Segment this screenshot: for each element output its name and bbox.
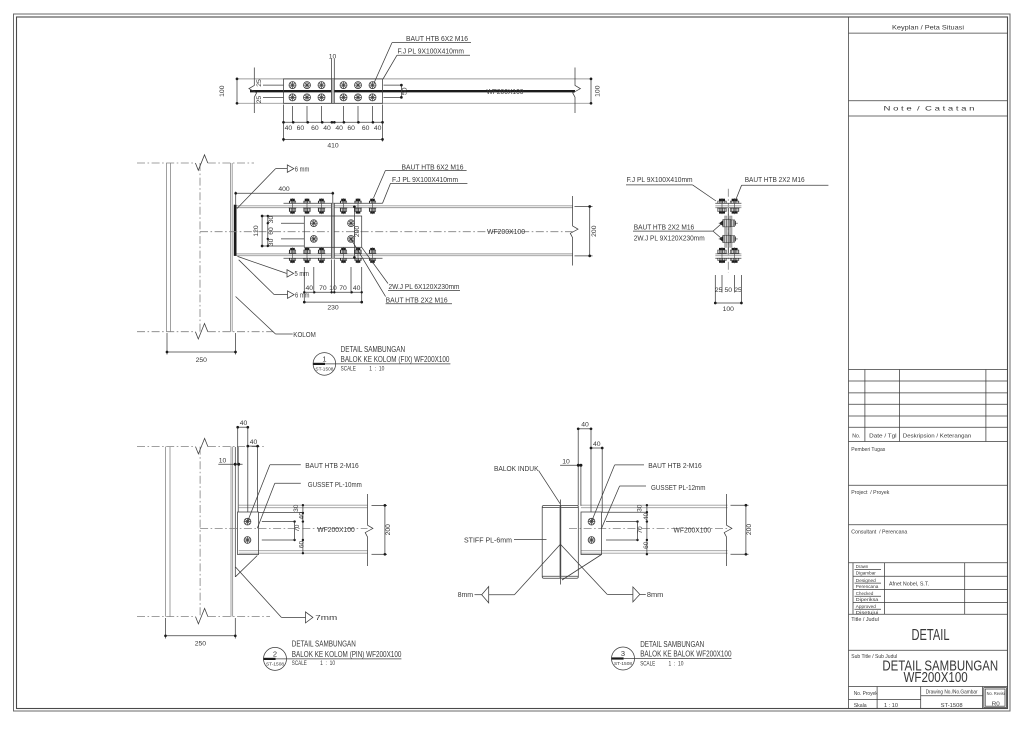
svg-text:GUSSET PL-12mm: GUSSET PL-12mm bbox=[651, 483, 706, 492]
svg-text:40: 40 bbox=[299, 512, 306, 520]
svg-text:200: 200 bbox=[354, 226, 361, 238]
svg-text:Date / Tgl: Date / Tgl bbox=[869, 434, 897, 440]
flange bolts bottom det1 bbox=[289, 247, 377, 263]
beam web thick center line plan bbox=[250, 90, 575, 92]
svg-text:250: 250 bbox=[196, 357, 208, 364]
column bottom match line with break det2 bbox=[137, 608, 270, 624]
dimension 30 60 30 web bolt rows bbox=[267, 215, 305, 247]
bolt group plan top row bbox=[289, 82, 376, 89]
svg-text:6 mm: 6 mm bbox=[295, 290, 310, 299]
svg-text:R0: R0 bbox=[992, 702, 1000, 708]
svg-text:40: 40 bbox=[593, 441, 601, 448]
project section bbox=[849, 490, 1008, 525]
revision table bbox=[849, 370, 1008, 442]
svg-text:30: 30 bbox=[637, 504, 644, 512]
beam WF200X100 plan outline bbox=[237, 78, 591, 80]
svg-text:F.J PL 9X100X410mm: F.J PL 9X100X410mm bbox=[398, 47, 465, 56]
note header bbox=[849, 101, 1008, 116]
svg-text:WF200X100: WF200X100 bbox=[487, 227, 525, 236]
section web bolts bbox=[719, 220, 738, 243]
svg-text:Title / Judul: Title / Judul bbox=[851, 617, 879, 623]
svg-text:60: 60 bbox=[299, 541, 306, 549]
dimension 50 right of plate bbox=[384, 84, 409, 99]
top dims det3: 40 40 10 bbox=[560, 422, 603, 512]
section top bolts bbox=[717, 198, 740, 214]
svg-text:ST-1508: ST-1508 bbox=[266, 661, 284, 666]
svg-text:WF200X100: WF200X100 bbox=[674, 528, 712, 535]
svg-text:Keyplan / Peta Situasi: Keyplan / Peta Situasi bbox=[892, 24, 965, 31]
svg-text:SCALE: SCALE bbox=[341, 365, 356, 372]
column centerline dashdot bbox=[199, 163, 201, 332]
bottom flange splice plate line bbox=[284, 257, 383, 259]
svg-text:BAUT HTB 2-M16: BAUT HTB 2-M16 bbox=[648, 461, 702, 470]
dimension 200 det2 bbox=[372, 504, 392, 556]
dimension 200 beam end det1 bbox=[575, 205, 599, 257]
dimension 120 web plate bbox=[253, 215, 304, 248]
dimension 100 right bbox=[590, 78, 602, 105]
bottom info rows bbox=[849, 687, 983, 709]
svg-text:60: 60 bbox=[268, 227, 275, 235]
column top match line with break det2 bbox=[137, 438, 266, 454]
svg-text:Digambar: Digambar bbox=[856, 570, 876, 575]
svg-text:200: 200 bbox=[746, 524, 753, 536]
svg-text:Checked: Checked bbox=[856, 591, 874, 596]
leader KOLOM bbox=[236, 297, 316, 339]
svg-text:8mm: 8mm bbox=[458, 590, 474, 599]
svg-text:No. Proyek: No. Proyek bbox=[854, 691, 878, 697]
svg-text:40: 40 bbox=[353, 285, 361, 292]
svg-text:10: 10 bbox=[329, 54, 337, 61]
svg-text:N o t e / C a t a t a n: N o t e / C a t a t a n bbox=[884, 106, 975, 113]
splice gap plan (10mm) bbox=[331, 79, 334, 103]
section centerline bbox=[727, 189, 729, 273]
bottom dimensions 40 70 10 70 40 bbox=[303, 260, 363, 304]
svg-text:Project / Proyek: Project / Proyek bbox=[851, 490, 889, 496]
flange splice plate FJ PL 9X100X410 plan bbox=[284, 79, 383, 103]
leader BAUT HTB 2-M16 det2 bbox=[248, 461, 359, 522]
svg-text:BAUT HTB 6X2 M16: BAUT HTB 6X2 M16 bbox=[406, 34, 468, 43]
leader BAUT HTB 2X2 M16 / 2WJ PL section left bbox=[633, 222, 722, 242]
svg-text:100: 100 bbox=[595, 85, 602, 97]
weld 8mm left det3 bbox=[458, 544, 561, 603]
svg-text:Approved: Approved bbox=[856, 604, 876, 609]
svg-text:ST-1508: ST-1508 bbox=[941, 703, 963, 709]
svg-text:F.J PL 9X100X410mm: F.J PL 9X100X410mm bbox=[392, 175, 458, 184]
consultant section bbox=[849, 530, 1008, 563]
svg-text:25: 25 bbox=[734, 287, 742, 294]
weld 6mm bottom bbox=[239, 260, 310, 300]
secondary beam flanges det3 bbox=[581, 505, 728, 553]
beam right break symbol bbox=[573, 68, 581, 114]
svg-text:Designed: Designed bbox=[856, 578, 876, 583]
svg-text:SCALE: SCALE bbox=[292, 660, 307, 667]
main beam BALOK INDUK section bbox=[542, 500, 578, 585]
svg-text:100: 100 bbox=[219, 85, 226, 97]
svg-text:60: 60 bbox=[297, 125, 305, 132]
svg-text:50: 50 bbox=[402, 87, 409, 95]
svg-text:10: 10 bbox=[329, 285, 337, 292]
beam end plate weld bar (black) bbox=[234, 205, 237, 256]
beam flanges det2 bbox=[239, 505, 368, 553]
svg-text:ST-1508: ST-1508 bbox=[315, 366, 333, 371]
leader FJ PL 9X100X410mm plan bbox=[383, 47, 470, 79]
weld 5mm bbox=[238, 256, 310, 278]
svg-text:DETAIL SAMBUNGAN: DETAIL SAMBUNGAN bbox=[292, 639, 356, 649]
bolt spacing dimension 40 60 60 40 40 60 60 40 bbox=[282, 105, 384, 142]
section bottom bolts bbox=[717, 247, 740, 263]
weld 7mm leader det2 bbox=[236, 567, 338, 623]
leader BAUT HTB 2X2 M16 det1 bbox=[351, 239, 452, 304]
section web plates 2WJ bbox=[725, 208, 732, 254]
svg-text:BALOK INDUK: BALOK INDUK bbox=[494, 464, 539, 473]
beam break det3 bbox=[724, 494, 732, 566]
keyplan header bbox=[849, 24, 1008, 33]
leader BAUT HTB 2-M16 det3 bbox=[592, 461, 702, 521]
svg-text:Diperiksa: Diperiksa bbox=[856, 597, 879, 602]
svg-text:BALOK KE KOLOM (FIX) WF200X100: BALOK KE KOLOM (FIX) WF200X100 bbox=[341, 354, 450, 364]
leader BAUT HTB 6X2 M16 plan bbox=[374, 34, 471, 83]
svg-text:120: 120 bbox=[253, 225, 260, 237]
weld 6mm top bbox=[237, 164, 309, 208]
svg-text:STIFF PL-6mm: STIFF PL-6mm bbox=[464, 535, 512, 544]
svg-text:60: 60 bbox=[311, 125, 319, 132]
no revisi box bbox=[984, 688, 1007, 708]
gusset plate det3 bbox=[581, 512, 602, 555]
svg-text:No. Revisi: No. Revisi bbox=[987, 691, 1005, 696]
splice gap det1 bbox=[331, 203, 334, 258]
svg-text:BAUT HTB 2X2 M16: BAUT HTB 2X2 M16 bbox=[634, 222, 695, 231]
svg-text:400: 400 bbox=[278, 186, 290, 193]
svg-text:7mm: 7mm bbox=[315, 613, 337, 622]
beam centerline dashdot det1 bbox=[200, 231, 573, 233]
gusset bolts det2 bbox=[244, 518, 251, 543]
bracket diagonal det3 bbox=[562, 555, 602, 581]
leader BAUT HTB 6X2 M16 det1 bbox=[374, 162, 467, 198]
end plate det2 bbox=[235, 447, 238, 577]
svg-text:WF200X100: WF200X100 bbox=[904, 670, 968, 686]
svg-text:Pemberi Tugas: Pemberi Tugas bbox=[851, 447, 885, 453]
leader GUSSET PL-10mm det2 bbox=[257, 480, 362, 528]
svg-text:200: 200 bbox=[591, 225, 598, 237]
leader BAUT HTB 2X2 M16 section top bbox=[736, 175, 829, 200]
svg-text:40: 40 bbox=[374, 125, 382, 132]
beam WF200X100 flanges elevation bbox=[237, 206, 573, 256]
svg-text:BAUT HTB 2X2 M16: BAUT HTB 2X2 M16 bbox=[386, 295, 448, 304]
title detail 3 bbox=[611, 639, 731, 670]
svg-text:230: 230 bbox=[327, 304, 339, 311]
svg-text:2W.J PL 6X120X230mm: 2W.J PL 6X120X230mm bbox=[389, 282, 460, 291]
svg-text:30: 30 bbox=[293, 504, 300, 512]
svg-text:Consultant / Perencana: Consultant / Perencana bbox=[851, 530, 908, 536]
dimension 230 bbox=[303, 301, 363, 312]
gusset dims det3: 30 40 70 60 bbox=[602, 504, 651, 555]
svg-text:3: 3 bbox=[621, 649, 625, 658]
section bolt gauge dims 25 50 25 bbox=[715, 275, 742, 304]
gusset dims det2: 30 40 70 60 bbox=[259, 504, 306, 554]
web splice plate 2WJ PL bbox=[304, 216, 361, 247]
svg-text:Perencana: Perencana bbox=[856, 584, 879, 589]
svg-text:Afnet Nobel, S.T.: Afnet Nobel, S.T. bbox=[889, 582, 929, 588]
svg-text:6 mm: 6 mm bbox=[295, 164, 310, 173]
leader BALOK INDUK bbox=[494, 464, 560, 504]
svg-text:1 : 10: 1 : 10 bbox=[884, 703, 898, 709]
pemberi tugas section bbox=[849, 447, 1008, 486]
svg-text:60: 60 bbox=[643, 541, 650, 549]
subtitle section bbox=[849, 654, 1008, 686]
svg-text:60: 60 bbox=[362, 125, 370, 132]
svg-text:40: 40 bbox=[285, 125, 293, 132]
title section bbox=[849, 617, 1008, 650]
svg-text:200: 200 bbox=[385, 524, 392, 536]
dimension 100 section bbox=[714, 302, 743, 314]
svg-text:5 mm: 5 mm bbox=[295, 269, 310, 278]
dimension 200 det3 bbox=[731, 504, 753, 556]
svg-text:70: 70 bbox=[319, 285, 327, 292]
column bottom match line with break bbox=[137, 324, 274, 340]
dimension 250 det2 bbox=[164, 618, 237, 647]
svg-text:1 : 10: 1 : 10 bbox=[369, 365, 384, 372]
svg-text:GUSSET PL-10mm: GUSSET PL-10mm bbox=[308, 480, 362, 489]
svg-text:40: 40 bbox=[240, 420, 248, 427]
svg-text:F.J PL 9X100X410mm: F.J PL 9X100X410mm bbox=[627, 175, 693, 184]
svg-text:40: 40 bbox=[323, 125, 331, 132]
svg-text:Skala: Skala bbox=[854, 703, 867, 709]
top flange splice plate line bbox=[284, 202, 383, 204]
svg-text:410: 410 bbox=[327, 143, 339, 150]
beam break det2 bbox=[365, 494, 373, 566]
signature table bbox=[849, 563, 1008, 615]
svg-text:No.: No. bbox=[852, 434, 860, 440]
svg-text:100: 100 bbox=[723, 306, 735, 313]
dimension 250 column bbox=[166, 333, 237, 364]
svg-text:DETAIL SAMBUNGAN: DETAIL SAMBUNGAN bbox=[341, 344, 406, 354]
svg-text:Deskripsion / Keterangan: Deskripsion / Keterangan bbox=[903, 434, 972, 440]
svg-text:40: 40 bbox=[250, 439, 258, 446]
svg-text:2W.J PL 9X120X230mm: 2W.J PL 9X120X230mm bbox=[634, 233, 705, 242]
dimension 100 left bbox=[219, 78, 238, 105]
column flanges det2 bbox=[166, 447, 233, 617]
gusset bolts det3 bbox=[588, 518, 595, 543]
svg-text:DETAIL: DETAIL bbox=[912, 627, 950, 644]
svg-text:1: 1 bbox=[322, 355, 326, 364]
svg-text:BAUT HTB 6X2 M16: BAUT HTB 6X2 M16 bbox=[402, 162, 464, 171]
svg-text:BALOK KE KOLOM (PIN) WF200X100: BALOK KE KOLOM (PIN) WF200X100 bbox=[292, 649, 402, 659]
svg-text:1 : 10: 1 : 10 bbox=[669, 661, 684, 668]
svg-text:40: 40 bbox=[581, 422, 589, 429]
svg-text:2: 2 bbox=[273, 650, 277, 659]
column KOLOM flanges elevation bbox=[167, 163, 233, 332]
web bolts det1 bbox=[310, 220, 354, 243]
leader 2WJ PL 6X120X230mm bbox=[362, 247, 460, 291]
flange bolts top det1 bbox=[289, 198, 377, 214]
svg-text:ST-1508: ST-1508 bbox=[614, 661, 632, 666]
top dims det2: 40 40 10 bbox=[218, 420, 259, 512]
title detail 1 bbox=[313, 344, 450, 375]
column centerline det2 bbox=[199, 447, 201, 617]
leader FJ PL section bbox=[626, 175, 716, 201]
svg-text:1 : 10: 1 : 10 bbox=[320, 660, 335, 667]
beam left break symbol bbox=[249, 68, 257, 114]
svg-text:60: 60 bbox=[347, 125, 355, 132]
beam right break det1 bbox=[570, 196, 578, 266]
svg-text:25: 25 bbox=[715, 287, 723, 294]
section top flange + plate bbox=[715, 203, 741, 207]
dimension 25 bottom-left bbox=[256, 96, 284, 104]
svg-text:WF200X100: WF200X100 bbox=[487, 87, 524, 96]
svg-text:70: 70 bbox=[637, 526, 644, 534]
title block outline bbox=[848, 17, 850, 709]
dimension 410 bbox=[282, 138, 384, 150]
gusset plate det2 bbox=[238, 512, 259, 555]
svg-text:WF200X100: WF200X100 bbox=[317, 527, 355, 534]
svg-text:30: 30 bbox=[268, 238, 275, 246]
svg-text:BAUT HTB 2-M16: BAUT HTB 2-M16 bbox=[305, 461, 359, 470]
svg-text:BAUT HTB 2X2 M16: BAUT HTB 2X2 M16 bbox=[745, 175, 805, 184]
svg-text:25: 25 bbox=[256, 96, 263, 104]
svg-text:70: 70 bbox=[294, 524, 301, 532]
weld 8mm right det3 bbox=[560, 544, 663, 602]
svg-text:50: 50 bbox=[725, 287, 733, 294]
svg-text:250: 250 bbox=[195, 640, 207, 647]
svg-text:10: 10 bbox=[562, 459, 570, 466]
leader GUSSET PL-12mm det3 bbox=[601, 483, 705, 529]
svg-text:KOLOM: KOLOM bbox=[293, 330, 316, 339]
bolt group plan bottom row bbox=[289, 94, 376, 101]
bracket diagonal det2 bbox=[236, 556, 258, 577]
svg-text:Drawn: Drawn bbox=[856, 564, 869, 569]
svg-text:8mm: 8mm bbox=[647, 590, 663, 599]
svg-text:40: 40 bbox=[335, 125, 343, 132]
svg-text:30: 30 bbox=[268, 216, 275, 224]
title detail 2 bbox=[263, 639, 401, 671]
svg-text:40: 40 bbox=[643, 513, 650, 521]
beam centerline det3 bbox=[569, 528, 728, 530]
dimension 200 at splice bbox=[353, 205, 361, 259]
svg-text:DETAIL SAMBUNGAN: DETAIL SAMBUNGAN bbox=[640, 639, 704, 649]
svg-text:10: 10 bbox=[219, 457, 227, 464]
svg-text:SCALE: SCALE bbox=[640, 661, 655, 668]
leader STIFF PL-6mm bbox=[464, 535, 547, 544]
beam centerline det2 bbox=[200, 528, 367, 530]
svg-text:70: 70 bbox=[339, 285, 347, 292]
dimension 25 top-left bbox=[256, 79, 284, 87]
dimension 400 bbox=[234, 186, 334, 205]
svg-text:Drawing No./No.Gambar: Drawing No./No.Gambar bbox=[926, 690, 978, 696]
svg-text:BALOK KE BALOK WF200X100: BALOK KE BALOK WF200X100 bbox=[640, 649, 731, 659]
leader FJ PL 9X100X410mm det1 bbox=[383, 175, 468, 203]
column top match line with break bbox=[137, 155, 254, 171]
svg-text:25: 25 bbox=[256, 79, 263, 87]
section bottom flange + plate bbox=[715, 254, 741, 258]
